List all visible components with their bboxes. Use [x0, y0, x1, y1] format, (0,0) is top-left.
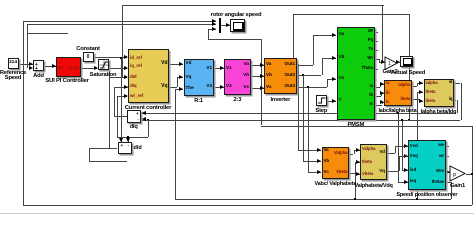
svg-text:1: 1 — [388, 61, 391, 67]
svg-text:p: p — [453, 172, 456, 178]
